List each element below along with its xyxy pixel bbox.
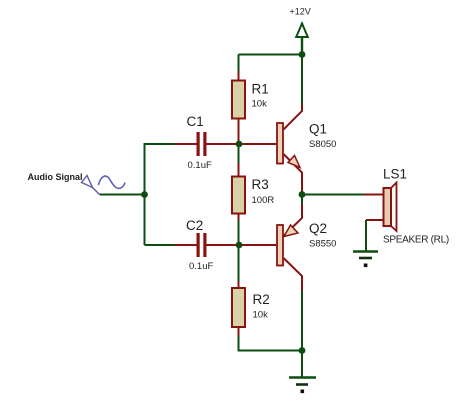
transistor Q1 collector pin xyxy=(284,104,303,130)
wire: R2 bottom to ground rail xyxy=(239,336,303,351)
capacitor C2 xyxy=(175,233,239,257)
resistor R1 xyxy=(232,72,245,145)
wire: Q2 collector down to ground rail xyxy=(301,291,303,351)
C2 value label 0.1uF xyxy=(189,261,213,272)
ground (speaker) xyxy=(353,252,378,268)
svg-text:S8050: S8050 xyxy=(309,139,336,150)
wire: R3 bottom to Q2 base node xyxy=(238,221,240,246)
wire: C2 left wire to left bus xyxy=(145,244,176,246)
C1 value label 0.1uF xyxy=(188,160,212,171)
power symbol +12V arrow xyxy=(296,23,308,55)
transistor Q2 emitter arrow (PNP) xyxy=(284,225,298,237)
R3 ref label xyxy=(252,177,269,192)
transistor Q2 base bar xyxy=(277,225,283,266)
svg-text:0.1uF: 0.1uF xyxy=(188,160,212,171)
R1 ref label xyxy=(252,82,269,97)
svg-text:C1: C1 xyxy=(187,114,204,129)
junction: output node (emitters + speaker) xyxy=(299,191,306,198)
svg-text:+12V: +12V xyxy=(290,7,311,17)
R2 ref label xyxy=(253,292,270,307)
wire: speaker bottom to ground xyxy=(365,220,367,252)
wire: C1 left wire to left bus xyxy=(145,143,176,145)
resistor R2 xyxy=(232,281,245,336)
speaker LS1 body xyxy=(384,183,397,232)
resistor R3 xyxy=(232,163,245,221)
wire: ground rail node down to ground symbol xyxy=(301,351,303,378)
svg-text:LS1: LS1 xyxy=(383,167,407,182)
svg-text:SPEAKER (RL): SPEAKER (RL) xyxy=(383,235,449,246)
R1 value label 10k xyxy=(252,99,268,110)
capacitor C1 xyxy=(175,132,239,156)
svg-text:S8550: S8550 xyxy=(309,239,336,250)
wire: right column from +12V junction down to Q1 collector xyxy=(301,55,303,105)
Q2 value label S8550 xyxy=(309,239,336,250)
svg-text:10k: 10k xyxy=(253,310,269,321)
svg-text:Q2: Q2 xyxy=(309,221,327,236)
wire: Q2 base red segment (C2 to base) xyxy=(207,244,278,246)
transistor Q1 emitter pin xyxy=(284,154,303,195)
transistor Q1 base bar xyxy=(277,123,283,164)
audio source sine wave xyxy=(99,176,126,188)
wire: Q1 base node red segment (C1 to base) xyxy=(207,143,278,145)
wire: Q2 base node down to R2 xyxy=(238,245,240,281)
wire: +12V rail horizontal to R1 column xyxy=(239,54,303,56)
junction: audio input node on left bus xyxy=(141,191,148,198)
svg-text:10k: 10k xyxy=(252,99,268,110)
C1 ref label xyxy=(187,114,204,129)
svg-text:Audio Signal: Audio Signal xyxy=(28,172,83,182)
transistor Q2 emitter pin xyxy=(284,204,303,236)
junction: Q2 base node xyxy=(236,242,243,249)
R3 value label 100R xyxy=(252,195,275,206)
junction: Q1 base node xyxy=(236,141,243,148)
junction: ground rail node xyxy=(299,347,306,354)
Q1 value label S8050 xyxy=(309,139,336,150)
R2 value label 10k xyxy=(253,310,269,321)
wire: R1 column top vertical xyxy=(238,55,240,72)
Q2 ref label xyxy=(309,221,327,236)
ground (bottom) xyxy=(289,378,316,394)
wire: output node green stub to Q2 emitter xyxy=(301,195,303,205)
wire: audio input horizontal xyxy=(100,194,145,196)
svg-text:C2: C2 xyxy=(186,218,203,233)
svg-text:0.1uF: 0.1uF xyxy=(189,261,213,272)
speaker LS1 bottom pin xyxy=(366,219,383,221)
power +12V label xyxy=(290,7,311,17)
audio source terminal triangle xyxy=(82,176,100,195)
speaker LS1 top pin xyxy=(364,194,383,196)
svg-text:100R: 100R xyxy=(252,195,275,206)
wire: output node to speaker xyxy=(302,194,364,196)
wire: base node down to R3 xyxy=(238,144,240,163)
svg-text:R1: R1 xyxy=(252,82,269,97)
svg-text:R2: R2 xyxy=(253,292,270,307)
LS1 value label SPEAKER (RL) xyxy=(383,235,449,246)
wire: left vertical bus C1 to C2 xyxy=(144,143,146,245)
svg-text:R3: R3 xyxy=(252,177,269,192)
Audio Signal label xyxy=(28,172,83,182)
transistor Q1 emitter arrow (NPN) xyxy=(288,156,300,168)
transistor Q2 collector pin xyxy=(284,258,303,291)
C2 ref label xyxy=(186,218,203,233)
junction: +12V rail node xyxy=(299,51,306,58)
LS1 ref label xyxy=(383,167,407,182)
Q1 ref label xyxy=(309,122,327,137)
svg-text:Q1: Q1 xyxy=(309,122,327,137)
